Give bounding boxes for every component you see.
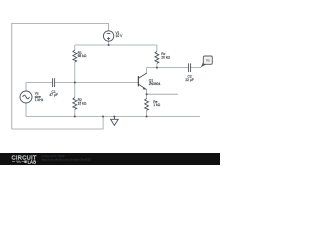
svg-text:47 µF: 47 µF: [49, 93, 58, 97]
svg-text:15 kΩ: 15 kΩ: [78, 102, 87, 106]
svg-text:1 kΩ: 1 kΩ: [153, 103, 160, 107]
svg-text:10 V: 10 V: [116, 34, 124, 38]
svg-text:Vo: Vo: [206, 59, 210, 63]
svg-text:68 kΩ: 68 kΩ: [78, 54, 87, 58]
svg-text:22 µF: 22 µF: [185, 78, 194, 82]
svg-text:1 kHz: 1 kHz: [35, 98, 44, 102]
svg-text:LAB: LAB: [28, 159, 37, 164]
svg-text:2N3904: 2N3904: [149, 82, 161, 86]
svg-text:http://circuitlab.com/c/mpkp/7: http://circuitlab.com/c/mpkp/7axi835: [42, 158, 91, 162]
svg-text:20 kΩ: 20 kΩ: [161, 56, 170, 60]
